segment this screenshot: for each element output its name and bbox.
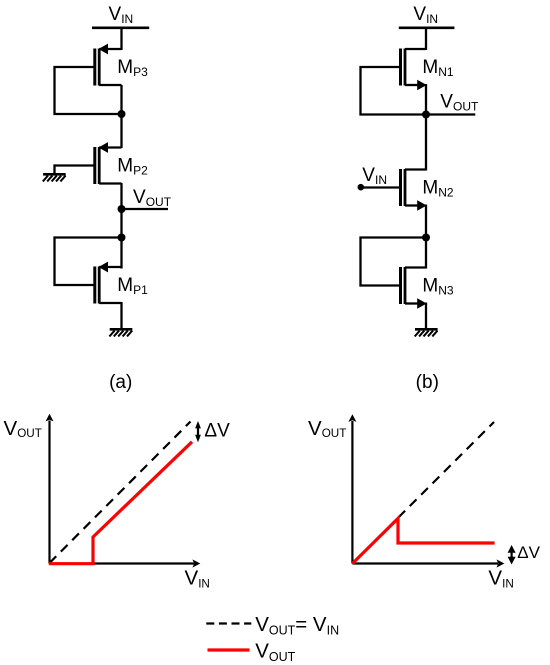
svg-text:VOUT= VIN: VOUT= VIN [255, 613, 339, 638]
svg-text:(a): (a) [109, 372, 132, 393]
svg-text:ΔV: ΔV [204, 421, 230, 442]
svg-text:ΔV: ΔV [517, 543, 540, 562]
svg-text:(b): (b) [416, 372, 439, 393]
